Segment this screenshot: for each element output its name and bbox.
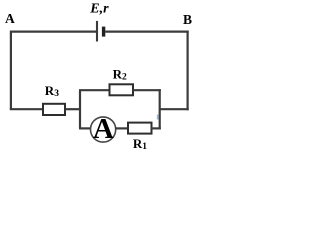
wire ammeter to R1 (115, 127, 128, 129)
svg-text:A: A (5, 11, 15, 26)
stray blue mark artifact (157, 115, 159, 120)
wire R3 to parallel node (65, 108, 81, 110)
wire parallel-right vertical (159, 89, 161, 129)
wire top-left from A to battery (10, 31, 96, 33)
svg-text:E,r: E,r (89, 2, 109, 17)
wire R2 to right node (133, 89, 161, 91)
ammeter A (91, 117, 116, 142)
wire bottom-left to R3 (10, 108, 43, 110)
battery E,r short thick plate (102, 27, 105, 37)
wire top-right from battery to B (105, 31, 189, 33)
resistor R3 (43, 104, 65, 115)
resistor R2 (110, 84, 134, 95)
battery E,r long plate (96, 21, 98, 42)
svg-text:B: B (183, 12, 192, 27)
wire right vertical B side (187, 31, 189, 111)
resistor R1 (128, 123, 152, 134)
svg-text:A: A (93, 113, 114, 145)
wire bottom branch to ammeter (79, 127, 92, 129)
wire left vertical A side (10, 31, 12, 110)
wire R1 to right node (152, 127, 161, 129)
wire right connector to B branch (160, 108, 189, 110)
wire top branch to R2 (79, 89, 110, 91)
wire parallel-left vertical (79, 90, 81, 128)
